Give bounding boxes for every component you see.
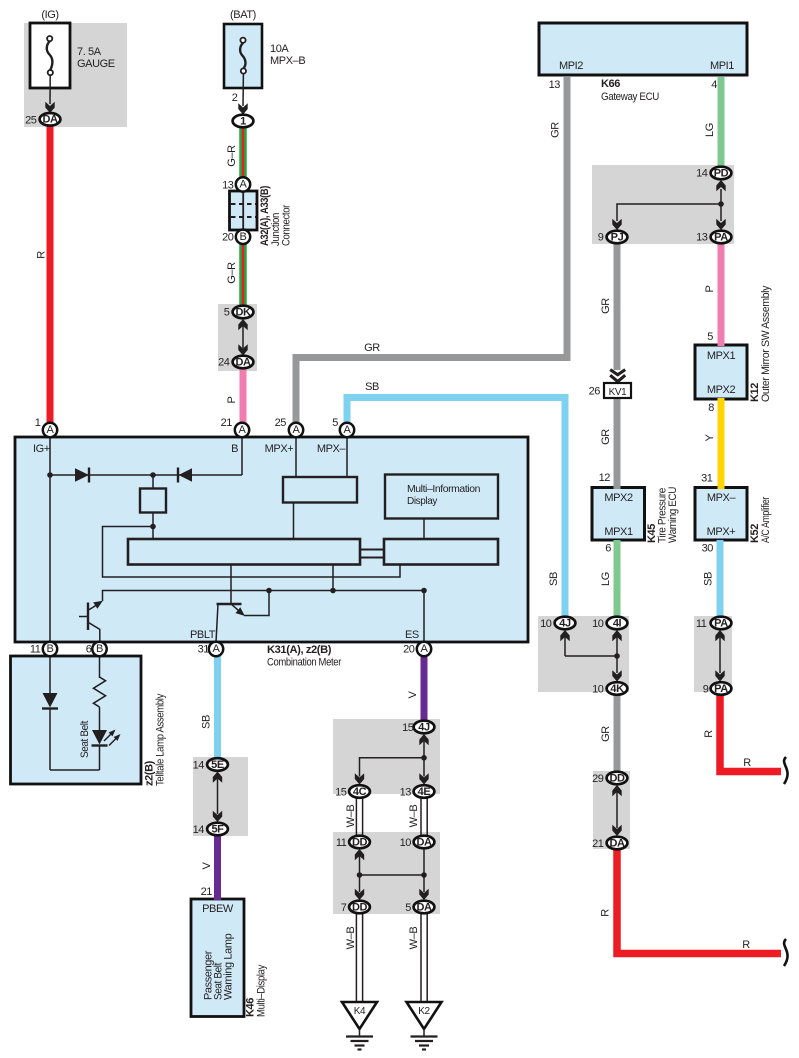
svg-text:K4: K4 <box>354 1006 366 1017</box>
svg-text:10: 10 <box>540 618 552 630</box>
svg-text:W–B: W–B <box>345 805 357 828</box>
svg-text:11: 11 <box>336 837 347 849</box>
svg-text:A: A <box>239 424 247 436</box>
svg-text:DA: DA <box>42 114 58 126</box>
svg-text:20: 20 <box>403 644 415 656</box>
svg-text:5: 5 <box>332 417 338 429</box>
svg-text:15: 15 <box>335 787 347 799</box>
svg-text:MPX–B: MPX–B <box>270 55 305 67</box>
svg-text:Gateway ECU: Gateway ECU <box>601 91 659 103</box>
svg-text:PBEW: PBEW <box>202 903 234 915</box>
svg-text:ES: ES <box>405 629 419 641</box>
svg-text:GAUGE: GAUGE <box>77 58 115 70</box>
svg-text:31: 31 <box>198 644 210 656</box>
svg-text:10A: 10A <box>270 43 289 55</box>
svg-text:PA: PA <box>714 231 728 243</box>
svg-text:R: R <box>743 757 751 769</box>
svg-text:8: 8 <box>708 402 714 414</box>
svg-text:13: 13 <box>549 79 561 91</box>
svg-text:5: 5 <box>224 307 230 319</box>
svg-text:A: A <box>293 424 301 436</box>
svg-text:21: 21 <box>592 838 604 850</box>
svg-text:R: R <box>742 939 750 951</box>
svg-text:A/C Amplifier: A/C Amplifier <box>760 496 772 543</box>
svg-text:Warning ECU: Warning ECU <box>667 487 679 543</box>
svg-text:14: 14 <box>193 760 205 772</box>
svg-text:21: 21 <box>221 417 233 429</box>
svg-text:5: 5 <box>707 331 713 343</box>
svg-text:Multi–Information: Multi–Information <box>407 484 480 495</box>
svg-text:6: 6 <box>86 644 92 656</box>
svg-text:Seat Belt: Seat Belt <box>79 721 91 758</box>
svg-text:B: B <box>96 643 103 655</box>
svg-text:A: A <box>213 643 221 655</box>
svg-text:W–B: W–B <box>345 927 357 950</box>
svg-text:K66: K66 <box>601 78 620 90</box>
svg-text:G–R: G–R <box>226 145 238 167</box>
svg-text:13: 13 <box>400 787 412 799</box>
svg-text:10: 10 <box>400 837 412 849</box>
svg-text:2: 2 <box>232 92 238 104</box>
svg-text:GR: GR <box>600 726 612 742</box>
svg-text:V: V <box>407 690 419 698</box>
svg-text:(IG): (IG) <box>41 9 58 21</box>
svg-text:4J: 4J <box>559 617 571 629</box>
svg-text:R: R <box>600 909 612 917</box>
svg-text:1: 1 <box>240 115 246 127</box>
svg-text:20: 20 <box>222 232 234 244</box>
svg-text:K31(A), z2(B): K31(A), z2(B) <box>267 644 332 656</box>
svg-text:11: 11 <box>696 618 707 630</box>
svg-text:MPI1: MPI1 <box>710 60 734 72</box>
svg-text:GR: GR <box>550 122 562 138</box>
svg-text:Combination Meter: Combination Meter <box>267 657 342 669</box>
svg-text:MPX+: MPX+ <box>707 526 736 538</box>
svg-text:SB: SB <box>365 381 379 393</box>
svg-text:DA: DA <box>416 901 432 913</box>
svg-text:R: R <box>703 730 715 738</box>
svg-text:SB: SB <box>548 572 560 586</box>
svg-text:10: 10 <box>592 684 604 696</box>
svg-text:GR: GR <box>600 429 612 445</box>
svg-text:13: 13 <box>696 232 708 244</box>
svg-text:PA: PA <box>714 683 728 695</box>
svg-text:9: 9 <box>703 684 709 696</box>
svg-text:PA: PA <box>714 617 728 629</box>
svg-text:LG: LG <box>704 123 716 137</box>
svg-text:5F: 5F <box>211 823 224 835</box>
svg-text:4K: 4K <box>610 683 624 695</box>
svg-text:Display: Display <box>407 496 437 507</box>
svg-text:MPX–: MPX– <box>707 492 737 504</box>
svg-text:Y: Y <box>704 433 716 441</box>
svg-text:DD: DD <box>352 836 368 848</box>
svg-text:DD: DD <box>352 901 368 913</box>
svg-text:PD: PD <box>714 167 729 179</box>
svg-text:SB: SB <box>201 715 213 729</box>
svg-text:MPX2: MPX2 <box>707 384 736 396</box>
svg-text:MPX1: MPX1 <box>604 526 633 538</box>
svg-text:DA: DA <box>609 837 625 849</box>
svg-text:W–B: W–B <box>408 927 420 950</box>
svg-text:MPX2: MPX2 <box>604 492 633 504</box>
svg-text:MPI2: MPI2 <box>559 60 583 72</box>
svg-text:25: 25 <box>25 115 37 127</box>
svg-text:5E: 5E <box>211 759 224 771</box>
svg-text:7: 7 <box>341 902 347 914</box>
svg-text:4E: 4E <box>418 786 431 798</box>
svg-text:KV1: KV1 <box>609 387 628 398</box>
svg-text:12: 12 <box>599 472 611 484</box>
svg-text:4J: 4J <box>418 721 430 733</box>
svg-text:11: 11 <box>30 644 41 656</box>
svg-text:G–R: G–R <box>226 262 238 284</box>
svg-text:B: B <box>240 231 247 243</box>
svg-text:26: 26 <box>589 386 601 398</box>
svg-text:A: A <box>240 179 248 191</box>
svg-text:Outer Mirror SW Assembly: Outer Mirror SW Assembly <box>760 285 772 402</box>
svg-text:Multi–Display: Multi–Display <box>256 964 268 1017</box>
svg-text:29: 29 <box>592 773 604 785</box>
svg-text:14: 14 <box>696 168 708 180</box>
svg-text:V: V <box>201 861 213 869</box>
svg-text:A: A <box>421 643 429 655</box>
svg-text:A: A <box>344 424 352 436</box>
svg-text:4C: 4C <box>353 786 367 798</box>
svg-text:DK: DK <box>235 306 251 318</box>
svg-text:DD: DD <box>609 772 625 784</box>
svg-text:30: 30 <box>702 543 714 555</box>
svg-text:31: 31 <box>701 473 713 485</box>
svg-text:24: 24 <box>218 357 230 369</box>
svg-text:Warning Lamp: Warning Lamp <box>223 933 235 1000</box>
svg-text:P: P <box>704 285 716 292</box>
svg-text:PJ: PJ <box>611 231 624 243</box>
svg-text:B: B <box>47 643 54 655</box>
svg-text:GR: GR <box>600 298 612 314</box>
svg-text:R: R <box>36 251 48 259</box>
svg-text:Telltale Lamp Assembly: Telltale Lamp Assembly <box>155 693 167 786</box>
svg-text:9: 9 <box>598 232 604 244</box>
svg-text:Connector: Connector <box>281 204 293 246</box>
svg-text:W–B: W–B <box>408 805 420 828</box>
svg-text:GR: GR <box>364 342 380 354</box>
svg-text:K2: K2 <box>418 1006 430 1017</box>
svg-text:14: 14 <box>193 824 205 836</box>
svg-text:15: 15 <box>402 722 414 734</box>
svg-text:PBLT: PBLT <box>190 629 216 641</box>
svg-text:DA: DA <box>235 356 251 368</box>
svg-text:P: P <box>226 396 238 403</box>
svg-text:SB: SB <box>703 572 715 586</box>
svg-text:(BAT): (BAT) <box>230 9 256 21</box>
svg-text:7. 5A: 7. 5A <box>77 46 102 58</box>
svg-text:1: 1 <box>35 417 41 429</box>
svg-text:10: 10 <box>592 618 604 630</box>
svg-text:4I: 4I <box>613 617 622 629</box>
svg-text:MPX–: MPX– <box>317 443 347 455</box>
svg-text:A: A <box>47 424 55 436</box>
svg-text:13: 13 <box>222 180 234 192</box>
svg-text:4: 4 <box>711 79 717 91</box>
svg-text:6: 6 <box>605 543 611 555</box>
svg-text:25: 25 <box>275 417 287 429</box>
svg-text:MPX+: MPX+ <box>265 443 294 455</box>
svg-text:21: 21 <box>201 886 213 898</box>
svg-text:IG+: IG+ <box>33 443 50 455</box>
svg-text:MPX1: MPX1 <box>707 350 736 362</box>
svg-text:LG: LG <box>600 572 612 586</box>
svg-text:5: 5 <box>405 902 411 914</box>
svg-text:DA: DA <box>416 836 432 848</box>
svg-text:B: B <box>231 443 238 455</box>
